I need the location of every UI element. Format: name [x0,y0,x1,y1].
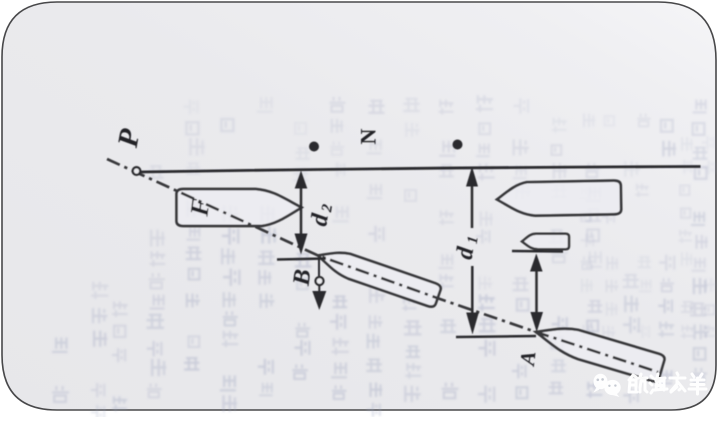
dot marker 1 [309,142,319,152]
logo eyes [597,378,617,387]
svg-text:N: N [356,128,381,144]
label d1 [452,233,482,261]
dash-dot course line through P, B, A [107,159,658,372]
svg-text:B: B [289,268,317,288]
arrow below B (line, circle, arrowhead) [318,258,320,276]
horizontal tick at B [277,259,326,260]
label d2 [306,201,336,228]
h dimension arrow [535,266,538,319]
ship top-right (bow left) [497,181,622,217]
leading line (horizon line) [139,167,701,173]
small ship (bow left) [522,234,569,249]
d2 dimension arrow [300,183,303,241]
open circle at point P [133,167,141,175]
dot marker 2 [453,140,463,150]
watermark logo (chat bubbles) [594,374,621,397]
line under small ship [512,250,563,253]
watermark text (vector pseudo CJK: Hang Hai Yi Yang) [629,373,706,394]
ship F (top-left, bow right) [177,189,302,226]
background bleed-through text [52,95,717,419]
ship A (bottom-right, bow up-left on course line) [532,319,666,383]
ship B (middle, bow up-left on course line) [314,244,442,308]
d1 dimension arrow [471,180,474,228]
svg-text:F: F [184,197,215,219]
horizontal tick at A [456,336,536,337]
